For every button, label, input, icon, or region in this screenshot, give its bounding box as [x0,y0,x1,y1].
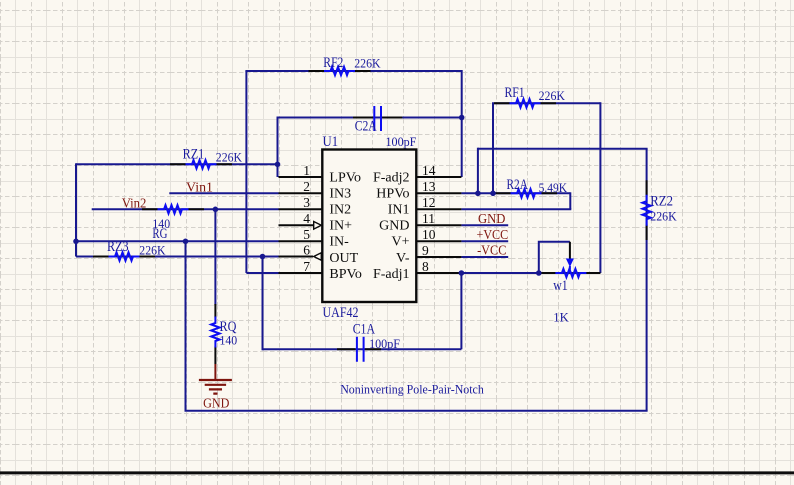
wire RF2 left vertical (net to pin7) [245,71,247,273]
svg-text:U1: U1 [323,134,339,150]
wire loop bottom horizontal [185,410,648,412]
svg-text:7: 7 [303,259,310,274]
resistor RF2 [309,55,381,75]
svg-text:140: 140 [220,334,238,348]
svg-text:226K: 226K [216,151,242,165]
pin 13 HPVo [376,179,461,202]
svg-text:LPVo: LPVo [329,171,361,186]
pin 11 GND [379,211,461,234]
wire loop left vertical [185,241,187,410]
net stub -VCC pin9 [461,256,508,258]
svg-text:226K: 226K [650,210,676,224]
svg-text:R2A: R2A [507,177,529,193]
svg-text:12: 12 [422,195,436,210]
wire pin7 connection [246,272,278,274]
svg-text:1: 1 [303,163,310,178]
capacitor C2A [353,106,416,149]
svg-text:BPVo: BPVo [329,267,361,282]
svg-text:w1: w1 [553,278,567,294]
svg-text:V+: V+ [391,235,409,250]
svg-text:100pF: 100pF [369,337,400,351]
svg-text:GND: GND [478,212,505,227]
svg-text:100pF: 100pF [386,135,417,149]
svg-text:RZ2: RZ2 [650,194,673,210]
svg-text:Vin2: Vin2 [122,197,147,212]
svg-text:RZ1: RZ1 [183,147,205,163]
junction node pin6/C1A vertical [260,254,266,260]
svg-text:9: 9 [422,243,429,258]
pin 6 OUT output arrow [279,242,359,265]
svg-text:IN-: IN- [329,235,349,250]
svg-text:IN+: IN+ [329,219,352,234]
svg-text:14: 14 [422,163,436,178]
wire w1 wiper hook [539,242,570,272]
net stub +VCC pin10 [461,240,508,242]
wire C2A row [278,117,462,119]
op-amp chip U1 UAF42 body [322,134,416,321]
resistor RZ1 [170,147,242,169]
svg-text:10: 10 [422,227,436,242]
svg-text:226K: 226K [139,244,165,258]
wire RZ1 row [76,163,278,165]
svg-text:C1A: C1A [353,322,375,338]
svg-text:RZ3: RZ3 [107,239,129,255]
svg-text:RF1: RF1 [505,85,525,101]
svg-text:Vin1: Vin1 [186,181,213,196]
sheet border bottom rule [0,471,794,474]
svg-text:Noninverting Pole-Pair-Notch: Noninverting Pole-Pair-Notch [340,382,484,397]
wire far left vertical [75,163,77,256]
svg-text:RQ: RQ [220,319,237,335]
svg-text:V-: V- [396,251,410,266]
svg-text:5.49K: 5.49K [539,181,567,195]
pin 7 BPVo [279,259,362,282]
junction node pin13 RZ2 branch [475,191,481,197]
wire pin13 row through R2A [461,192,570,194]
wire RZ3 row to pin6 [76,256,279,258]
svg-text:OUT: OUT [329,251,358,266]
junction node Vin2/RQ [213,207,219,213]
pin 3 IN2 [279,195,352,218]
wire R2A return vertical [569,192,571,209]
wire C1A row [263,348,462,350]
svg-text:GND: GND [379,219,409,234]
net stub GND pin11 [461,224,508,226]
wire Vin1 to pin2 [169,192,278,194]
svg-text:4: 4 [303,211,310,226]
svg-text:C2A: C2A [355,118,377,134]
wire pin5 row [76,240,279,242]
pin 9 V- [396,243,461,266]
svg-text:F-adj1: F-adj1 [373,267,410,282]
resistor R2A [495,177,567,198]
svg-text:1K: 1K [553,311,569,325]
wire RF1 row [492,102,600,104]
svg-text:IN3: IN3 [329,187,351,202]
wire vertical to pin13 [477,148,479,194]
resistor RZ2 (vertical) [642,180,676,240]
pin 2 IN3 [279,179,352,202]
wire RF1 right vertical down to w1 [599,102,601,273]
svg-text:+VCC: +VCC [477,228,509,243]
wire vertical C2A to pin1 [277,117,279,178]
resistor RG value 140 [142,205,204,242]
wire Vin2 to pin3 [92,208,279,210]
svg-text:GND: GND [203,397,229,412]
wire pin8 row to w1 [461,272,600,274]
wire vertical pin8 to C1A row [460,273,462,349]
pin 5 IN- [279,227,350,250]
ground symbol GND [199,364,232,412]
wire RF2 top horizontal [245,70,461,72]
svg-text:2: 2 [303,179,310,194]
resistor RZ3 [93,239,166,261]
wire right vertical from RF2 to pin14 [461,70,463,177]
wire RF1 left vertical [492,103,494,193]
svg-text:F-adj2: F-adj2 [373,171,410,186]
resistor RF1 [494,85,565,108]
junction node pin13 RF1 branch [490,191,496,197]
junction node loop vertical pin5 [183,239,189,245]
pin 14 F-adj2 [373,163,461,186]
pin 1 LPVo [279,163,362,186]
svg-text:5: 5 [303,227,310,242]
svg-text:6: 6 [303,242,310,257]
pin 8 F-adj1 [373,259,461,282]
svg-text:226K: 226K [354,57,380,71]
wire pin12 row [461,208,571,210]
svg-text:UAF42: UAF42 [323,305,359,321]
svg-text:HPVo: HPVo [376,187,409,202]
svg-text:RF2: RF2 [323,55,343,71]
junction node left vertical pin5 [73,239,79,245]
svg-text:8: 8 [422,259,429,274]
junction node C2A/RF2 right [459,115,465,121]
junction node pin8 wiper branch [536,270,542,276]
svg-text:RG: RG [152,226,167,242]
wire RZ2 top horizontal [478,148,648,150]
svg-text:3: 3 [303,195,310,210]
junction node RZ1/pin1 vertical [275,162,281,168]
wire vertical Vin2 node to RQ [214,209,216,305]
svg-text:IN1: IN1 [388,203,410,218]
svg-text:-VCC: -VCC [477,244,506,259]
resistor RQ (vertical) [211,304,237,364]
wire vertical pin6 node to C1A [262,257,264,351]
pin 4 IN+ input arrow [279,211,353,234]
wire RZ2 vertical [646,149,648,411]
svg-text:IN2: IN2 [329,203,351,218]
svg-text:13: 13 [422,179,436,194]
svg-text:11: 11 [422,211,435,226]
capacitor C1A [337,322,400,362]
pin 12 IN1 [388,195,462,218]
svg-text:226K: 226K [539,89,565,103]
pin 10 V+ [391,227,461,250]
junction node pin8 C1A branch [459,270,465,276]
potentiometer w1 [540,242,600,325]
